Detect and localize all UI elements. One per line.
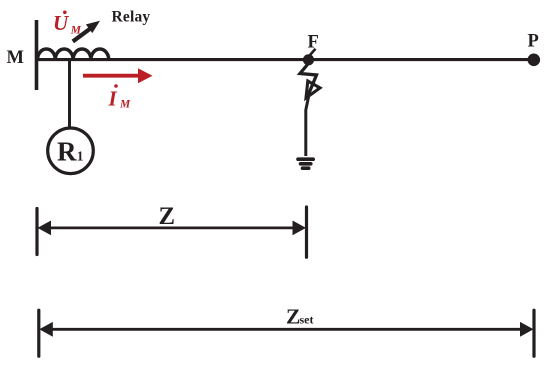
current label I_M: [108, 84, 132, 110]
svg-text:Relay: Relay: [112, 9, 151, 26]
current arrow I_M: [83, 68, 153, 83]
svg-text:1: 1: [77, 149, 84, 164]
wire coil to relay R1: [68, 60, 71, 129]
label Relay: [112, 9, 151, 26]
fault wire to ground: [306, 97, 309, 157]
label Z_set: [286, 305, 314, 329]
fault arrowhead: [306, 81, 320, 98]
svg-text:Z: Z: [159, 201, 176, 230]
voltage phasor label U_M: [53, 11, 82, 37]
dimension Z_set right tick: [532, 310, 535, 356]
dimension Z arrow: [38, 221, 307, 236]
relay R1: [48, 128, 94, 174]
fault stub above node: [310, 49, 316, 55]
bus bar M: [35, 20, 39, 90]
svg-text:Z: Z: [286, 305, 300, 329]
svg-text:M: M: [7, 48, 24, 68]
label F: [308, 33, 319, 53]
relay direction arrow: [73, 21, 100, 42]
svg-text:U: U: [53, 11, 70, 35]
fault lightning bolt: [300, 65, 317, 97]
node P dot: [528, 54, 541, 67]
dimension Z right tick: [305, 207, 308, 257]
svg-text:set: set: [300, 313, 314, 327]
label Z: [159, 201, 176, 230]
dimension Z left tick: [35, 209, 38, 255]
svg-text:P: P: [528, 32, 539, 52]
label P: [528, 32, 539, 52]
dimension Z_set left tick: [37, 310, 40, 356]
svg-text:I: I: [108, 86, 118, 110]
relay CT coil: [38, 49, 109, 60]
label M: [7, 48, 24, 68]
transmission line M to P: [36, 58, 534, 61]
svg-text:M: M: [119, 98, 131, 110]
svg-text:R: R: [57, 137, 77, 167]
node F dot: [303, 54, 314, 65]
dimension Z_set arrow: [39, 322, 533, 337]
ground: [298, 159, 313, 168]
